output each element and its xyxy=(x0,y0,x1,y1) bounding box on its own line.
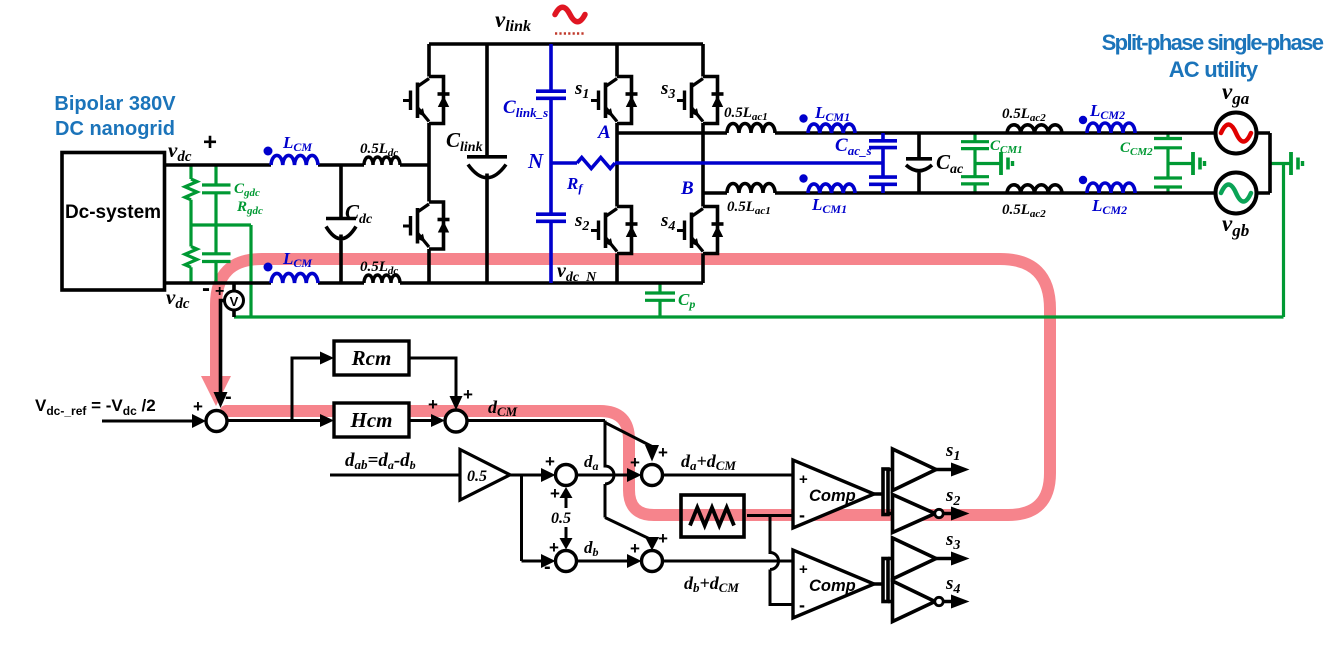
svg-text:Bipolar 380V: Bipolar 380V xyxy=(54,93,176,115)
svg-text:Split-phase single-phase: Split-phase single-phase xyxy=(1102,30,1324,55)
svg-text:+: + xyxy=(215,283,224,300)
svg-text:Dc-system: Dc-system xyxy=(65,202,161,223)
svg-text:AC utility: AC utility xyxy=(1169,57,1259,82)
svg-text:Comp: Comp xyxy=(809,487,856,505)
svg-text:+: + xyxy=(658,443,668,462)
svg-text:-: - xyxy=(225,386,232,408)
svg-text:+: + xyxy=(630,539,640,558)
svg-text:+: + xyxy=(193,397,203,416)
svg-text:Hcm: Hcm xyxy=(350,408,393,432)
svg-text:Comp: Comp xyxy=(809,577,856,595)
svg-text:Rcm: Rcm xyxy=(351,346,392,370)
svg-text:+: + xyxy=(550,484,560,503)
svg-text:-: - xyxy=(799,595,805,615)
svg-text:+: + xyxy=(658,529,668,548)
svg-text:-: - xyxy=(799,505,805,525)
svg-text:+: + xyxy=(463,385,473,404)
svg-text:-: - xyxy=(544,556,551,578)
svg-text:+: + xyxy=(799,471,808,488)
svg-text:+: + xyxy=(799,561,808,578)
svg-text:+: + xyxy=(545,452,555,471)
svg-text:+: + xyxy=(549,538,559,557)
svg-text:0.5: 0.5 xyxy=(467,468,487,485)
svg-text:B: B xyxy=(680,178,694,199)
svg-text:V: V xyxy=(230,294,239,309)
svg-text:DC nanogrid: DC nanogrid xyxy=(55,118,175,140)
svg-text:+: + xyxy=(630,453,640,472)
svg-text:N: N xyxy=(527,149,544,173)
svg-text:A: A xyxy=(597,122,611,143)
svg-text:0.5: 0.5 xyxy=(551,510,571,527)
svg-text:+: + xyxy=(203,129,217,156)
svg-text:+: + xyxy=(428,395,438,414)
svg-text:-: - xyxy=(202,275,210,302)
